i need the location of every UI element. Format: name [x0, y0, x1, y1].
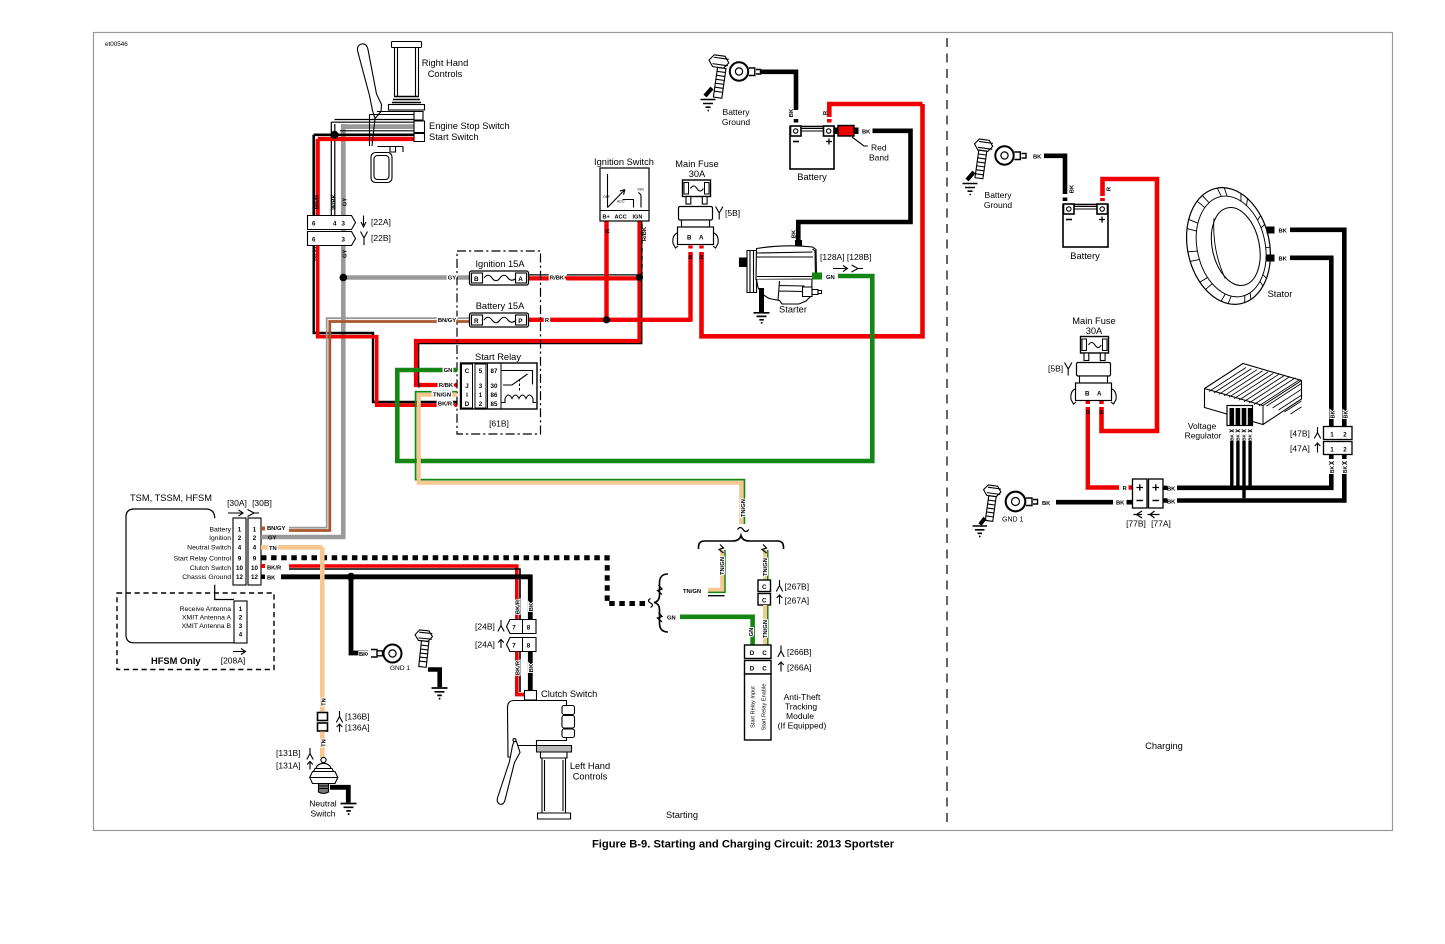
svg-text:Battery: Battery [723, 107, 751, 117]
svg-text:BK/R: BK/R [516, 599, 522, 614]
svg-text:[47A]: [47A] [1290, 444, 1310, 454]
GND1 bolt (charging) [979, 484, 1001, 522]
svg-text:TN/GN: TN/GN [741, 499, 747, 517]
squiggle on TN/GN feed [738, 528, 749, 532]
stator output BK wire 2 [1267, 255, 1275, 262]
svg-text:[131B]: [131B] [276, 748, 301, 758]
svg-text:4: 4 [333, 221, 337, 228]
svg-text:C: C [762, 584, 767, 591]
svg-text:6: 6 [312, 237, 316, 244]
svg-text:7: 7 [512, 625, 516, 632]
svg-text:4: 4 [253, 545, 257, 552]
junction dot R/BK [636, 274, 643, 281]
svg-text:2: 2 [1343, 431, 1347, 438]
svg-text:9: 9 [253, 556, 257, 563]
svg-text:9: 9 [238, 556, 242, 563]
svg-text:85: 85 [491, 401, 498, 408]
connector 77A [1149, 479, 1164, 508]
svg-text:BK: BK [1229, 434, 1234, 441]
svg-text:Receive Antenna: Receive Antenna [180, 606, 232, 613]
wire GY junction branch to ignition fuse [343, 275, 470, 280]
connector 266A [745, 661, 812, 675]
svg-text:2: 2 [238, 535, 242, 542]
wire R battery2 feed loop [1100, 198, 1105, 201]
svg-text:BN/GY: BN/GY [438, 318, 456, 324]
TSM pin rows [236, 527, 258, 582]
svg-text:Switch: Switch [310, 809, 335, 819]
svg-text:TN/GN: TN/GN [720, 557, 726, 575]
svg-text:Starter: Starter [779, 305, 807, 315]
main fuse connector 5B [673, 207, 718, 249]
svg-text:Module: Module [786, 711, 814, 721]
svg-text:BK/R: BK/R [438, 402, 453, 408]
wire BK/R from 22B pin6 to start relay D [314, 246, 457, 406]
svg-text:[267A]: [267A] [785, 596, 810, 606]
svg-text:GN: GN [749, 628, 755, 637]
TSM pin4 wire TN + label [261, 545, 322, 550]
svg-text:GND 1: GND 1 [1002, 517, 1024, 524]
svg-text:[267B]: [267B] [785, 582, 810, 592]
svg-text:HFSM Only: HFSM Only [151, 656, 201, 666]
ignition switch [600, 168, 649, 221]
TSM connector column 30A [233, 518, 246, 585]
svg-text:Neutral Switch: Neutral Switch [187, 545, 231, 552]
svg-text:B+: B+ [603, 215, 611, 221]
thin black line of bundle [340, 130, 414, 132]
svg-text:1: 1 [1330, 431, 1334, 438]
svg-text:A: A [1097, 391, 1102, 398]
svg-text:B: B [796, 235, 799, 240]
svg-text:Figure B-9. Starting and Charg: Figure B-9. Starting and Charging Circui… [592, 839, 895, 851]
svg-text:TSM, TSSM, HFSM: TSM, TSSM, HFSM [130, 493, 212, 503]
battery ground bolt (charging) [970, 138, 994, 179]
TSM pin10 wire BK/R to clutch [261, 564, 520, 622]
stator output BK wire 1 [1267, 227, 1275, 234]
svg-text:GN: GN [667, 616, 676, 622]
svg-text:10: 10 [251, 565, 258, 572]
svg-text:Battery 15A: Battery 15A [476, 301, 525, 311]
svg-text:1: 1 [1330, 446, 1334, 453]
wire TN down to neutral switch [320, 547, 325, 711]
svg-text:Ignition 15A: Ignition 15A [475, 259, 525, 269]
svg-text:TN: TN [322, 698, 328, 706]
svg-text:Ignition: Ignition [209, 535, 231, 542]
svg-text:I: I [466, 392, 468, 399]
svg-text:[266B]: [266B] [787, 647, 812, 657]
svg-text:BK: BK [1248, 434, 1253, 441]
svg-text:[30B]: [30B] [252, 498, 272, 508]
svg-text:TN/GN: TN/GN [763, 620, 769, 638]
wire BK battery to starter [798, 131, 910, 243]
svg-text:2: 2 [253, 535, 257, 542]
77 connector arrows [1134, 511, 1160, 518]
wire GY vertical down to TSM pin2 [261, 216, 343, 537]
svg-text:C: C [762, 666, 767, 673]
wire GY from engine stop switch [343, 124, 414, 216]
svg-text:Starting: Starting [666, 810, 698, 820]
starter GN output stub [812, 273, 822, 280]
wire R/BK from ignition switch IGN down-left to relay J [416, 221, 642, 388]
overhead brace [699, 536, 784, 550]
main fuse pin stubs R R [691, 246, 702, 249]
svg-text:2: 2 [479, 401, 483, 408]
svg-text:D: D [750, 650, 755, 657]
connector 22B [308, 232, 391, 246]
svg-text:Battery: Battery [797, 172, 827, 182]
svg-text:GY: GY [448, 276, 457, 282]
brake lever [357, 44, 381, 146]
svg-text:10: 10 [236, 565, 243, 572]
svg-text:D: D [465, 401, 470, 408]
svg-text:Red: Red [871, 143, 887, 153]
wire TN/GN drop from overhead brace left [708, 550, 722, 590]
svg-text:P: P [518, 318, 523, 325]
svg-text:R: R [474, 318, 479, 325]
wire BK/R from start switch (black+red pair) [314, 135, 414, 216]
svg-text:Anti-Theft: Anti-Theft [784, 692, 821, 702]
battery ground bolt (starting) [704, 54, 730, 98]
svg-text:Start Relay Input: Start Relay Input [751, 686, 757, 728]
svg-text:Stator: Stator [1268, 289, 1293, 299]
svg-text:[136B]: [136B] [345, 712, 370, 722]
svg-text:1: 1 [253, 527, 257, 534]
junction dot on bundle [331, 131, 339, 139]
regulator wire break glyphs [1229, 430, 1252, 441]
svg-text:IGN: IGN [633, 215, 643, 221]
wire GN starter to relay C [397, 276, 872, 461]
svg-text:[61B]: [61B] [489, 419, 509, 429]
svg-text:BK: BK [1343, 466, 1349, 474]
anti-theft tracking module body [745, 674, 772, 740]
svg-text:J: J [465, 383, 469, 390]
TSM pin2 wire label GY + wire [261, 535, 265, 539]
wire BN/GY from TSM pin1 to battery fuse [289, 318, 470, 530]
svg-text:R/BK: R/BK [550, 276, 565, 282]
section separator dashed line [946, 38, 948, 822]
svg-text:2: 2 [1343, 446, 1347, 453]
svg-text:30A: 30A [689, 169, 706, 179]
wire BK 47A-2 to 77A [1177, 474, 1344, 501]
svg-text:D: D [750, 666, 755, 673]
ground bolt next to GND1 [412, 630, 433, 668]
svg-text:Battery: Battery [209, 527, 231, 534]
svg-text:86: 86 [491, 392, 498, 399]
svg-text:BK: BK [789, 108, 795, 117]
wire R battery fuse out to main fuse B pin [528, 252, 691, 322]
svg-text:XMIT Antenna B: XMIT Antenna B [182, 623, 232, 630]
svg-text:GY: GY [343, 249, 349, 258]
svg-text:12: 12 [251, 574, 258, 581]
svg-text:BK/R: BK/R [516, 660, 522, 675]
ground symbol battery ground [705, 88, 712, 96]
wire BK 47A-1 to 77A [1177, 474, 1331, 488]
connector 267B [758, 580, 809, 592]
GND1 ring terminal (charging) [1006, 492, 1038, 512]
svg-text:BK: BK [1279, 229, 1288, 235]
svg-text:Left Hand: Left Hand [570, 761, 610, 771]
svg-text:BK: BK [1235, 434, 1240, 441]
svg-text:BK: BK [1070, 184, 1076, 193]
svg-text:4: 4 [238, 545, 242, 552]
svg-text:BK: BK [1033, 155, 1042, 161]
wire TN connector to switch [320, 732, 325, 759]
svg-text:C: C [465, 368, 470, 375]
svg-text:BK: BK [529, 663, 535, 672]
TSM pin1 wire label BN/GY [261, 527, 265, 531]
svg-text:XMIT Antenna A: XMIT Antenna A [182, 615, 231, 622]
svg-text:[128A] [128B]: [128A] [128B] [820, 252, 872, 262]
svg-text:7: 7 [512, 643, 516, 650]
svg-text:Voltage: Voltage [1188, 421, 1217, 431]
svg-text:30: 30 [491, 383, 498, 390]
wire W/BK from start switch (white w/ black stripe, two thin lines) [331, 120, 414, 217]
svg-text:30A: 30A [1086, 326, 1103, 336]
svg-text:IGN: IGN [638, 188, 645, 192]
svg-text:OFF: OFF [603, 195, 611, 199]
TSM module outline [126, 509, 234, 643]
svg-text:Right Hand: Right Hand [422, 58, 469, 68]
lightning on left drop [719, 545, 724, 554]
red band on battery cable [835, 126, 890, 163]
svg-text:3: 3 [342, 221, 346, 228]
connector 47B [1290, 421, 1352, 440]
svg-text:Clutch Switch: Clutch Switch [190, 565, 231, 572]
svg-text:C: C [762, 650, 767, 657]
battery (starting) [790, 126, 834, 169]
svg-text:TN/GN: TN/GN [683, 589, 701, 595]
svg-text:1: 1 [479, 392, 483, 399]
svg-text:GN: GN [444, 368, 453, 374]
svg-text:BK: BK [1242, 434, 1247, 441]
svg-text:TN/GN: TN/GN [763, 558, 769, 576]
svg-text:GND 1: GND 1 [390, 665, 410, 672]
svg-text:Chassis Ground: Chassis Ground [182, 574, 231, 581]
svg-text:Main Fuse: Main Fuse [675, 159, 718, 169]
wire R main fuse2 B to 77B [1086, 401, 1090, 405]
battery (charging) [1063, 204, 1108, 247]
connector 266B [745, 645, 812, 659]
svg-text:BK: BK [1344, 411, 1350, 419]
wire R main fuse A pin to battery feed [702, 104, 923, 336]
svg-text:5: 5 [479, 368, 483, 375]
svg-text:BK: BK [529, 602, 535, 611]
lightning GN row [658, 613, 663, 623]
svg-text:Start Relay Control: Start Relay Control [174, 556, 232, 563]
junction dot chassis ground [347, 573, 355, 581]
stator drawing [1176, 179, 1281, 312]
fuse Ignition 15A [470, 271, 529, 285]
svg-text:BK: BK [1116, 501, 1125, 507]
svg-text:Main Fuse: Main Fuse [1072, 316, 1115, 326]
svg-text:BK: BK [1331, 411, 1337, 419]
svg-text:Battery: Battery [1070, 251, 1100, 261]
connector 22A [308, 216, 391, 230]
svg-text:3: 3 [479, 383, 483, 390]
svg-text:BK: BK [1167, 487, 1176, 493]
svg-text:3: 3 [342, 237, 346, 244]
clutch switch + left hand controls drawing [497, 691, 574, 820]
svg-text:3: 3 [239, 623, 243, 630]
svg-text:ACC: ACC [617, 200, 625, 204]
svg-text:BK/R: BK/R [267, 566, 282, 572]
wire R/BK ignition fuse out to junction [528, 275, 640, 279]
svg-text:A: A [518, 276, 523, 283]
connector 136B 136A [318, 711, 370, 733]
svg-text:[136A]: [136A] [345, 723, 370, 733]
svg-text:Start Relay: Start Relay [475, 352, 521, 362]
connector 24A [475, 638, 536, 652]
HFSM antenna connector column [234, 601, 247, 643]
connector 24B [475, 620, 536, 634]
svg-text:A: A [699, 235, 704, 242]
svg-text:[5B]: [5B] [725, 208, 740, 218]
svg-text:[266A]: [266A] [787, 663, 812, 673]
TSM connector column 30B [248, 518, 261, 585]
svg-text:GY: GY [343, 198, 349, 207]
svg-text:BK: BK [1042, 501, 1051, 507]
svg-text:Controls: Controls [428, 69, 463, 79]
svg-text:[24B]: [24B] [475, 622, 495, 632]
wire TN/GN drop right to 267B [763, 550, 767, 580]
svg-text:Controls: Controls [573, 772, 608, 782]
wire BK battery ground to battery [760, 72, 796, 110]
squiggle break on dashed wire [649, 599, 653, 608]
svg-text:1: 1 [239, 606, 243, 613]
svg-text:R/BK: R/BK [439, 383, 454, 389]
svg-text:Ground: Ground [984, 200, 1013, 210]
svg-text:87: 87 [491, 368, 498, 375]
svg-text:Start Switch: Start Switch [429, 132, 479, 142]
junction dot R [603, 316, 610, 323]
svg-text:B: B [474, 276, 479, 283]
ring terminal battery ground (charging) [995, 146, 1026, 164]
svg-text:TN: TN [269, 546, 277, 552]
connector 77B [1133, 479, 1148, 508]
svg-text:et00546: et00546 [105, 41, 128, 48]
svg-text:ACC: ACC [615, 215, 627, 221]
svg-text:[24A]: [24A] [475, 640, 495, 650]
neutral switch [310, 757, 338, 793]
fuse Battery 15A [470, 313, 529, 327]
starter drawing [740, 235, 822, 304]
voltage regulator drawing [1205, 364, 1302, 426]
svg-text:TN: TN [322, 739, 328, 747]
wire R battery positive feed [827, 119, 832, 123]
svg-text:BK: BK [1167, 500, 1176, 506]
svg-text:6: 6 [312, 221, 316, 228]
svg-text:1: 1 [238, 527, 242, 534]
svg-text:[22B]: [22B] [371, 233, 391, 243]
svg-text:Clutch Switch: Clutch Switch [541, 689, 597, 699]
svg-text:[77A]: [77A] [1151, 519, 1171, 529]
svg-text:BN/GY: BN/GY [267, 526, 285, 532]
svg-text:[131A]: [131A] [276, 761, 301, 771]
svg-text:GN: GN [826, 275, 835, 281]
svg-text:Charging: Charging [1145, 741, 1183, 751]
svg-text:Start Relay Enable: Start Relay Enable [762, 684, 768, 731]
svg-text:R/BK: R/BK [642, 226, 648, 241]
starter ground wire [759, 288, 764, 312]
svg-text:4: 4 [239, 632, 243, 639]
Right Hand Controls master cylinder drawing [370, 42, 425, 183]
svg-text:Ground: Ground [722, 117, 751, 127]
connector 47A [1290, 442, 1352, 455]
svg-text:[47B]: [47B] [1290, 429, 1310, 439]
svg-text:BK: BK [862, 130, 871, 136]
wire TN/GN 267A to 266B [763, 605, 767, 645]
svg-text:[30A]: [30A] [227, 498, 247, 508]
svg-text:Battery: Battery [985, 190, 1013, 200]
HFSM Only dashed box [117, 593, 274, 670]
svg-text:[22A]: [22A] [371, 217, 391, 227]
svg-text:Tracking: Tracking [785, 702, 818, 712]
wire BK ground to battery2 [1044, 156, 1065, 194]
junction dot GY [340, 274, 348, 282]
svg-text:C: C [762, 597, 767, 604]
svg-text:(If Equipped): (If Equipped) [778, 721, 827, 731]
fuse block dash-dot border [457, 251, 541, 434]
svg-text:8: 8 [527, 625, 531, 632]
left brace for anti-theft pair [654, 574, 668, 632]
svg-text:BK: BK [1279, 257, 1288, 263]
svg-text:BK/R: BK/R [315, 194, 321, 209]
TSM pin labels [174, 527, 232, 582]
svg-text:Neutral: Neutral [309, 799, 337, 809]
svg-text:Band: Band [869, 153, 889, 163]
svg-text:GY: GY [268, 536, 277, 542]
svg-text:BK: BK [359, 652, 368, 658]
svg-text:BK: BK [1330, 466, 1336, 474]
svg-text:B: B [687, 235, 692, 242]
svg-text:Regulator: Regulator [1185, 431, 1222, 441]
svg-text:2: 2 [239, 615, 243, 622]
svg-text:TN/GN: TN/GN [433, 393, 451, 399]
GND 1 ring terminal (left) [371, 645, 410, 673]
svg-text:[77B]: [77B] [1126, 519, 1146, 529]
svg-text:Engine Stop Switch: Engine Stop Switch [429, 121, 510, 131]
svg-text:B: B [1085, 391, 1090, 398]
svg-text:BK: BK [267, 576, 276, 582]
ground wire from bolt [428, 670, 440, 688]
wire TN/GN from relay I down and right [416, 392, 745, 524]
main fuse blade symbol [683, 180, 711, 204]
lightning TN/GN row [658, 585, 663, 595]
wires 24A to clutch switch [517, 652, 531, 695]
svg-text:8: 8 [527, 643, 531, 650]
TSM pin12 wire BK chassis ground [261, 575, 530, 623]
svg-text:Ignition Switch: Ignition Switch [594, 157, 654, 167]
connector 267A [758, 594, 809, 606]
label Y [5B] [716, 207, 723, 220]
page border frame [94, 33, 1393, 831]
ring terminal battery ground [730, 62, 761, 80]
wire BK down to GND 1 ring [351, 577, 368, 653]
neutral switch ground wire [330, 787, 348, 802]
svg-text:[5B]: [5B] [1048, 364, 1063, 374]
svg-text:W/BK: W/BK [332, 193, 338, 209]
wire R from ignition switch B+ [604, 221, 608, 319]
svg-text:[208A]: [208A] [221, 656, 246, 666]
regulator output wires [1230, 441, 1233, 486]
start relay body [461, 363, 538, 409]
svg-text:12: 12 [236, 574, 243, 581]
47A pin stubs + BK break labels [1331, 455, 1344, 460]
TSM pin9 start relay control dashed wire [261, 558, 646, 604]
